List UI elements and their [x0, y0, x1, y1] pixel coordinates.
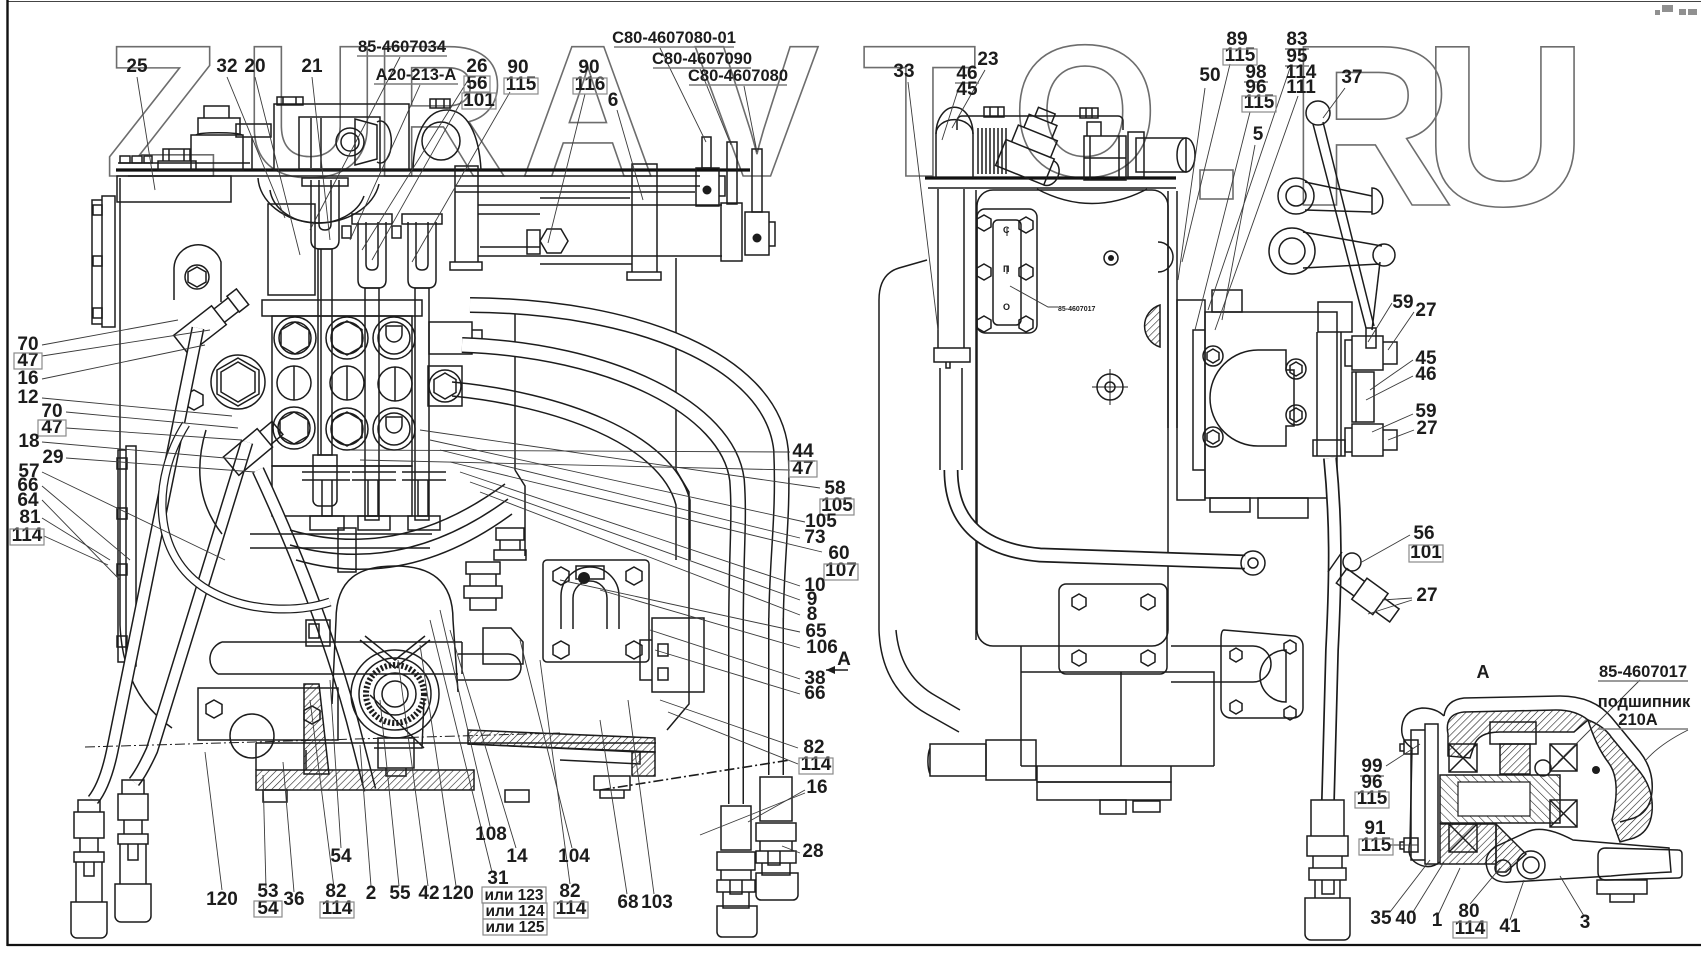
side fittings 59/27 upper [1345, 336, 1397, 370]
breather tilted [996, 101, 1080, 189]
leader 85-4607034 [310, 57, 400, 230]
pump assembly [1177, 300, 1205, 500]
svg-text:или 125: или 125 [485, 919, 544, 936]
lower hatch block [1440, 824, 1496, 864]
pipe stub [1171, 646, 1271, 682]
top cover seam [116, 168, 750, 171]
axis dash-dot left [85, 733, 560, 747]
vertical hose R2 [768, 618, 784, 775]
svg-text:П: П [1003, 264, 1009, 274]
fitting stack mid-right [464, 562, 502, 610]
left outer lower curve [879, 630, 959, 732]
svg-text:T: T [862, 6, 977, 216]
vertical pins [702, 137, 711, 168]
port circle and hex [336, 128, 364, 156]
sweep hose B [462, 345, 738, 628]
valve row3 hex caps [273, 407, 315, 449]
svg-text:33: 33 [893, 61, 914, 82]
corner marks top right [1655, 5, 1697, 15]
upper block with pin [696, 168, 725, 206]
svg-text:37: 37 [1341, 67, 1362, 88]
svg-text:115: 115 [1361, 835, 1392, 856]
lower body [1021, 646, 1214, 766]
vertical pipe from elbow [1317, 332, 1341, 456]
svg-text:или 123: или 123 [484, 887, 543, 904]
foot below [1597, 880, 1647, 902]
right hex nut [428, 366, 462, 406]
svg-text:40: 40 [1395, 908, 1416, 929]
leaders right view side [1368, 303, 1392, 342]
outer housing outline left lobe [1402, 708, 1444, 867]
svg-text:114: 114 [1455, 918, 1486, 939]
pointer from 85-4607017 [1558, 680, 1640, 762]
inner step blocks [1490, 722, 1536, 744]
svg-text:или 124: или 124 [485, 903, 544, 920]
svg-text:115: 115 [1244, 92, 1275, 113]
hose fitting R1 [717, 806, 757, 937]
right flange horseshoe [1221, 630, 1303, 718]
central shaft hatched [1440, 775, 1560, 823]
svg-text:1: 1 [1432, 910, 1443, 931]
leader C80-90 [700, 69, 731, 145]
boss arc behind forks [258, 178, 379, 223]
shaft stub below [378, 738, 414, 776]
clevis fork 2 [358, 222, 386, 288]
svg-text:115: 115 [1357, 788, 1388, 809]
svg-text:120: 120 [442, 883, 474, 904]
clevis fork 1 [311, 180, 339, 249]
left stub shaft [928, 740, 1036, 780]
leader 20 [255, 77, 300, 255]
leader 26 [362, 77, 470, 250]
left standpipe [938, 189, 964, 348]
pan hatched band right [468, 730, 655, 752]
leader 21 [312, 77, 330, 240]
svg-text:5: 5 [1253, 124, 1264, 145]
sweep pipe C [452, 382, 690, 560]
rocker ring 2 [1269, 228, 1315, 274]
mount step with bolt [158, 149, 196, 170]
flange bolt upper [1400, 740, 1418, 754]
diagonal fitting 27 [1334, 565, 1403, 625]
valve row1 hex caps [274, 317, 316, 359]
svg-text:U: U [1422, 0, 1588, 254]
hose fitting bottom-left 1 [71, 800, 107, 938]
svg-text:27: 27 [1415, 300, 1436, 321]
elbow fitting mid [223, 418, 284, 475]
svg-text:115: 115 [506, 74, 537, 95]
svg-text:114: 114 [12, 525, 43, 546]
leader C80-80 [744, 86, 757, 152]
cylinder left hex [540, 229, 568, 253]
svg-text:41: 41 [1499, 916, 1521, 937]
front face [977, 190, 1168, 646]
svg-text:O: O [1012, 6, 1158, 216]
boss arc top [1037, 189, 1147, 204]
svg-text:14: 14 [506, 846, 528, 867]
left flange strip lower [118, 446, 136, 666]
pan feet [263, 790, 529, 802]
bell inner V bracket [360, 636, 430, 668]
lower hex [185, 390, 203, 410]
cover plate [977, 209, 1037, 333]
left big hex nut [211, 355, 265, 409]
leader A20-213-A [350, 85, 420, 240]
frame bottom border [7, 944, 1701, 946]
bell hatched wedge left [304, 684, 329, 774]
top bolts [277, 97, 303, 105]
svg-text:32: 32 [216, 56, 237, 77]
leader 56/101 [372, 100, 462, 260]
svg-text:114: 114 [801, 754, 832, 775]
valve block body [272, 316, 412, 466]
svg-text:A20-213-A: A20-213-A [376, 66, 457, 84]
svg-text:54: 54 [330, 846, 352, 867]
leader 90/115 [412, 92, 510, 262]
lever arm [1486, 829, 1671, 882]
svg-text:28: 28 [802, 841, 823, 862]
svg-text:18: 18 [18, 431, 39, 452]
valve row2 circles [277, 366, 311, 400]
drain stub [594, 776, 630, 798]
leaders detail [1386, 744, 1420, 766]
svg-text:12: 12 [17, 387, 38, 408]
leaders right column [350, 450, 790, 452]
horizontal cylinder [478, 205, 722, 256]
pipe bend arc left [162, 424, 330, 609]
vertical hose R1 [728, 620, 744, 804]
outer housing left [879, 260, 927, 630]
svg-text:27: 27 [1416, 418, 1437, 439]
axis dash-dot right [600, 760, 790, 790]
hatched top wall [1447, 710, 1588, 758]
leader C80-01 [660, 48, 706, 142]
svg-text:114: 114 [322, 898, 353, 919]
right bracket block [429, 322, 482, 354]
svg-text:C80-4607090: C80-4607090 [652, 50, 752, 68]
outer housing outline top/right [1444, 696, 1652, 822]
hose fittings bottom [1305, 800, 1350, 940]
mount ear with bolt [174, 245, 221, 302]
leader 25 [137, 77, 155, 190]
left cap ellipse [936, 107, 973, 178]
svg-text:104: 104 [558, 846, 590, 867]
svg-text:114: 114 [556, 898, 587, 919]
right elbow cylinder [1136, 138, 1186, 172]
frame top border [7, 1, 1701, 3]
long hose down [1328, 458, 1335, 800]
right vertical strip [1168, 191, 1177, 428]
top bolts [984, 107, 1004, 117]
svg-text:59: 59 [1392, 292, 1413, 313]
manifold curves under block [290, 484, 505, 539]
hose fitting R2 [756, 777, 798, 900]
svg-text:111: 111 [1286, 77, 1316, 98]
foot pads [1100, 800, 1126, 814]
bracket right of flange [640, 618, 704, 692]
clamp plates under rods [302, 472, 350, 516]
svg-text:подшипник: подшипник [1598, 693, 1691, 711]
svg-text:103: 103 [641, 892, 673, 913]
fork pivot bolts [342, 226, 401, 238]
svg-text:56: 56 [1413, 523, 1434, 544]
leaders right view top [908, 82, 938, 330]
svg-text:120: 120 [206, 889, 238, 910]
tiny plate label [1010, 286, 1058, 307]
pan hatched band left [256, 770, 474, 790]
end block with pin [745, 212, 775, 255]
svg-text:66: 66 [804, 683, 825, 704]
svg-text:68: 68 [617, 892, 638, 913]
hex cap inner rings [279, 322, 311, 354]
svg-text:116: 116 [575, 74, 606, 95]
svg-text:50: 50 [1199, 65, 1220, 86]
tube between [1352, 372, 1374, 422]
leader 32 [227, 77, 285, 218]
bearing rings [351, 650, 439, 738]
beam under cover [455, 186, 700, 192]
svg-text:23: 23 [977, 49, 998, 70]
small bolt boss [1158, 242, 1173, 272]
housing right edge [667, 258, 689, 730]
top box with port [274, 104, 409, 170]
crosshair bolt [1097, 374, 1123, 400]
small fitting 56 [1343, 553, 1361, 571]
svg-text:85-4607034: 85-4607034 [358, 38, 447, 56]
leaders bottom [205, 752, 222, 890]
svg-text:C80-4607080: C80-4607080 [688, 67, 788, 85]
svg-text:16: 16 [806, 777, 827, 798]
vertical bracket plates [450, 166, 482, 270]
svg-text:3: 3 [1580, 912, 1591, 933]
hose diag right (to bottom) [258, 470, 370, 790]
svg-text:55: 55 [389, 883, 411, 904]
arm horizontal [210, 642, 462, 674]
svg-text:45: 45 [956, 79, 978, 100]
watermark ZURAVTO.RU [104, 0, 1588, 254]
svg-text:42: 42 [418, 883, 439, 904]
rocker ring 1 [1278, 178, 1314, 214]
dome hump [413, 110, 481, 170]
hatched right bulge [1588, 720, 1652, 842]
svg-text:O: O [1003, 302, 1010, 312]
frame left border [6, 0, 8, 946]
svg-text:25: 25 [126, 56, 148, 77]
cover seam [925, 176, 1176, 179]
bearing X boxes right [1550, 744, 1577, 771]
hose left 1 [93, 328, 198, 800]
svg-text:29: 29 [42, 447, 63, 468]
svg-text:A: A [1477, 662, 1490, 682]
svg-text:107: 107 [825, 560, 857, 581]
handle [1598, 848, 1682, 880]
svg-text:2: 2 [366, 883, 377, 904]
sweep hose A [470, 305, 782, 628]
arm plate with bolts [198, 688, 338, 740]
leaders left column [42, 320, 178, 345]
lever knob and rod [1306, 101, 1330, 125]
left flange plate [1411, 724, 1438, 864]
bearing X boxes left [1449, 744, 1477, 772]
svg-text:85-4607017: 85-4607017 [1058, 306, 1095, 313]
side fittings 59/27 lower [1345, 424, 1397, 456]
svg-text:210А: 210А [1618, 711, 1658, 729]
svg-text:27: 27 [1416, 585, 1437, 606]
S pipe to ring [951, 470, 1245, 562]
hatched bump right edge [1145, 305, 1160, 347]
svg-text:A: A [837, 649, 851, 670]
housing left edge [120, 178, 172, 728]
svg-text:106: 106 [806, 637, 838, 658]
svg-text:85-4607017: 85-4607017 [1599, 663, 1687, 681]
bell dome [336, 566, 453, 620]
svg-text:6: 6 [608, 90, 619, 111]
svg-text:16: 16 [17, 368, 38, 389]
cylinder end collar [721, 203, 742, 261]
leader 90/116 [548, 94, 585, 243]
svg-text:Z: Z [104, 6, 219, 216]
svg-text:31: 31 [487, 868, 509, 889]
svg-text:35: 35 [1370, 908, 1392, 929]
clevis fork 3 [408, 222, 436, 288]
center fitting [1084, 122, 1126, 180]
hose fitting bottom-left 2 [115, 780, 151, 922]
svg-text:C80-4607080-01: C80-4607080-01 [612, 29, 736, 47]
leader 6 [617, 110, 643, 200]
square flange [1059, 584, 1167, 674]
pipe horizontal mid [250, 534, 432, 548]
left flange strip upper [92, 196, 115, 327]
flange plate square [543, 560, 649, 662]
hose left 2 [134, 442, 247, 782]
svg-text:21: 21 [301, 56, 323, 77]
svg-text:20: 20 [244, 56, 265, 77]
inner face line [975, 190, 977, 640]
svg-text:36: 36 [283, 889, 304, 910]
flange bolt lower [1400, 838, 1418, 852]
breather cap stack [191, 106, 243, 170]
svg-text:108: 108 [475, 824, 507, 845]
filler flange [236, 124, 271, 170]
elbow fitting top [174, 287, 250, 354]
bolt strip left top [120, 156, 152, 163]
svg-text:46: 46 [1415, 364, 1436, 385]
svg-text:73: 73 [804, 527, 825, 548]
